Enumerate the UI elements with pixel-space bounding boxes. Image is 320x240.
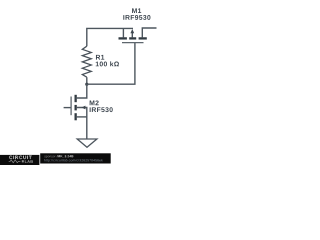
M2 drain lead wire up to node <box>76 84 87 98</box>
M1 drain riser and output stub wire <box>142 28 156 37</box>
label M2 <box>90 100 99 105</box>
label 100 kOhm value <box>96 61 119 66</box>
label M1 <box>132 8 141 13</box>
M1 channel bar drain side <box>139 37 147 39</box>
M1 channel bar source side <box>119 37 127 39</box>
node junction dot <box>85 83 88 86</box>
url text line <box>44 159 103 162</box>
CircuitLab watermark logo box <box>0 155 39 165</box>
M2 channel bar source side <box>75 113 77 120</box>
logo zigzag decoration <box>9 160 21 163</box>
logo CIRCUIT text <box>9 156 31 159</box>
watermark info panel <box>40 153 111 163</box>
logo LAB text <box>25 160 33 163</box>
wire top rail from R1 top to M1 source <box>87 28 133 46</box>
M1 channel bar bulk <box>129 37 136 39</box>
M2 gate stub wire <box>64 107 71 109</box>
M2 source lead wire <box>76 116 87 118</box>
wire R1 bottom lead <box>86 77 88 84</box>
ground <box>77 139 97 147</box>
M2 bulk arrow pointing left <box>82 106 86 110</box>
M1 source drop wire <box>122 28 124 37</box>
M1 bulk arrow pointing up <box>131 31 133 37</box>
M2 channel bar bulk <box>75 105 77 111</box>
label R1 <box>96 55 104 60</box>
label IRF9530 <box>123 15 150 20</box>
transistor M1 (PMOS IRF9530) gate plate <box>122 42 144 44</box>
M2 bulk lead and wire down to ground <box>77 108 87 140</box>
resistor R1 <box>82 46 91 77</box>
wire mid node to M1 gate <box>87 43 135 84</box>
label IRF530 <box>90 107 113 112</box>
transistor M2 (NMOS IRF530) gate plate <box>70 97 72 116</box>
sponsor text line <box>44 155 57 158</box>
M2 channel bar drain side <box>75 95 77 102</box>
